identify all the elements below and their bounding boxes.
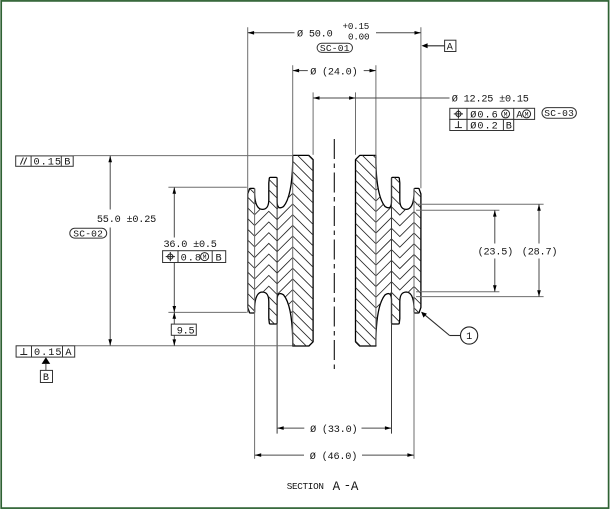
extension line dia50 right bbox=[420, 27, 422, 188]
perpendicularity frame 0.15 A bbox=[16, 346, 75, 357]
svg-text:Ø0.2: Ø0.2 bbox=[470, 121, 498, 133]
svg-text:0.8: 0.8 bbox=[181, 253, 202, 264]
extension line 23.5 bottom bbox=[416, 291, 499, 293]
extension line dia24 right bbox=[375, 65, 377, 345]
svg-text:B: B bbox=[43, 373, 50, 384]
pulley section right half outline bbox=[356, 155, 421, 346]
balloon item 1 with leader bbox=[450, 335, 461, 337]
svg-text:M: M bbox=[504, 111, 508, 118]
svg-text:M: M bbox=[525, 111, 529, 118]
extension line 36.0 bottom bbox=[168, 311, 246, 313]
extension line dia50 left bbox=[247, 27, 249, 312]
extension line dia46 right bbox=[413, 188, 415, 459]
dimension dia 12.25 +-0.15 leader bbox=[313, 97, 355, 99]
pulley section left half outline bbox=[248, 155, 313, 346]
svg-text:9.5: 9.5 bbox=[177, 326, 195, 337]
svg-text:M: M bbox=[203, 254, 207, 261]
svg-text:A: A bbox=[65, 348, 72, 359]
svg-text:Ø 50.0: Ø 50.0 bbox=[297, 28, 333, 40]
extension line 28.7 bottom bbox=[416, 296, 543, 298]
svg-text:SECTION: SECTION bbox=[287, 481, 324, 492]
svg-text:SC-01: SC-01 bbox=[320, 43, 350, 54]
svg-text:A: A bbox=[333, 480, 341, 494]
dimension 55.0 +-0.25 with SC-02 bbox=[109, 156, 111, 210]
extension line dia33 left bbox=[276, 178, 278, 434]
svg-text:+0.15: +0.15 bbox=[343, 21, 370, 32]
dimension 36.0 +-0.5 with position frame 0.8 M B bbox=[173, 187, 175, 237]
svg-text:1: 1 bbox=[466, 332, 472, 343]
centerline (axis) bbox=[333, 139, 335, 373]
svg-text:A: A bbox=[447, 43, 454, 54]
svg-text:55.0 ±0.25: 55.0 ±0.25 bbox=[97, 215, 156, 226]
extension line bore left bbox=[312, 92, 314, 154]
dimension (28.7) bbox=[538, 204, 540, 243]
dimension (23.5) bbox=[494, 210, 496, 243]
dimension dia (33.0) bbox=[277, 427, 304, 429]
svg-text:0.15: 0.15 bbox=[34, 158, 62, 169]
datum A flag with leader arrow bbox=[426, 45, 445, 47]
extension line bottom face bbox=[75, 345, 292, 347]
extension line 36.0 top bbox=[168, 186, 246, 188]
dimension 9.5 boxed bbox=[173, 312, 175, 345]
svg-text:Ø (46.0): Ø (46.0) bbox=[310, 451, 357, 463]
svg-text:36.0 ±0.5: 36.0 ±0.5 bbox=[164, 240, 217, 251]
svg-text:(28.7): (28.7) bbox=[522, 246, 557, 258]
extension line dia24 left bbox=[292, 65, 294, 345]
svg-text:0.00: 0.00 bbox=[348, 32, 369, 43]
svg-text:B: B bbox=[506, 122, 513, 133]
extension line dia46 left bbox=[254, 188, 256, 459]
svg-text:Ø (24.0): Ø (24.0) bbox=[310, 66, 357, 78]
svg-text:A: A bbox=[351, 480, 359, 494]
svg-text:Ø0.6: Ø0.6 bbox=[470, 110, 498, 122]
dimension dia (24.0) bbox=[293, 70, 308, 72]
svg-text:Ø (33.0): Ø (33.0) bbox=[310, 424, 357, 436]
extension line 23.5 top bbox=[416, 209, 499, 211]
svg-text:(23.5): (23.5) bbox=[478, 246, 513, 258]
parallelism frame 0.15 B bbox=[16, 156, 73, 166]
extension line 28.7 top bbox=[416, 203, 543, 205]
dimension dia 50.0 +0.15/0.00 with SC-01 bbox=[248, 32, 295, 34]
extension line top face bbox=[74, 155, 293, 157]
svg-text:SC-02: SC-02 bbox=[73, 229, 103, 240]
svg-text:B: B bbox=[64, 158, 71, 169]
svg-text:0.15: 0.15 bbox=[34, 348, 62, 359]
dimension dia (46.0) bbox=[255, 454, 304, 456]
svg-text:Ø 12.25 ±0.15: Ø 12.25 ±0.15 bbox=[452, 94, 529, 106]
svg-text:B: B bbox=[216, 253, 223, 264]
feature control frame position dia0.6 M A M / perp dia0.2 B with SC-03 bbox=[450, 108, 535, 130]
extension line dia33 right bbox=[391, 178, 393, 434]
datum B symbol bbox=[42, 357, 51, 364]
extension line bore right bbox=[355, 92, 357, 154]
svg-text:SC-03: SC-03 bbox=[544, 108, 574, 119]
